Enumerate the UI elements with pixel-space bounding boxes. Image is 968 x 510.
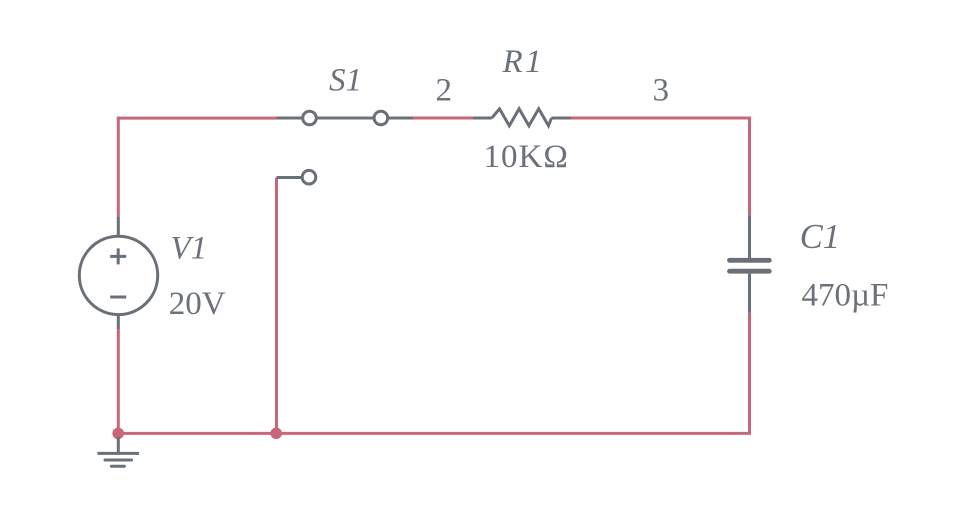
- wire top-left horizontal (node 1): [117, 117, 277, 120]
- svg-text:2: 2: [436, 72, 453, 108]
- value 470µF: [802, 278, 889, 314]
- svg-text:470µF: 470µF: [802, 278, 889, 314]
- value 20V: [169, 286, 226, 322]
- wire left vertical lower: [117, 329, 120, 435]
- wire right vertical lower: [748, 312, 751, 435]
- wire bottom rail: [117, 432, 752, 435]
- wire node 3: resistor to top-right corner: [571, 117, 751, 120]
- svg-text:C1: C1: [800, 218, 840, 256]
- label V1: [171, 230, 208, 266]
- switch S1 pole contact: [303, 111, 317, 125]
- wire node 2: switch to resistor: [413, 117, 474, 120]
- svg-text:10KΩ: 10KΩ: [484, 139, 569, 175]
- junction switch-throw on bottom rail: [270, 428, 282, 440]
- junction ground node: [112, 428, 124, 440]
- label R1: [502, 44, 545, 80]
- wire switch throw down to bottom rail: [275, 178, 278, 435]
- node 3 label: [653, 73, 670, 109]
- ground: [98, 437, 140, 466]
- svg-text:3: 3: [653, 73, 670, 109]
- svg-text:20V: 20V: [169, 286, 226, 322]
- node 2 label: [436, 72, 453, 108]
- switch S1 unused throw contact: [302, 170, 316, 184]
- wire left vertical upper: [117, 117, 120, 217]
- switch S1 throw contact (closed, node 2): [374, 111, 388, 125]
- wire right vertical upper: [748, 117, 751, 217]
- svg-text:R1: R1: [502, 44, 545, 80]
- svg-text:S1: S1: [329, 62, 362, 98]
- capacitor C1: [730, 216, 770, 312]
- label C1: [800, 218, 840, 256]
- resistor R1: [474, 109, 572, 126]
- svg-text:V1: V1: [171, 230, 208, 266]
- voltage source V1: [79, 217, 157, 329]
- switch S1: [277, 118, 414, 178]
- value 10KΩ: [484, 139, 569, 175]
- label S1: [329, 62, 362, 98]
